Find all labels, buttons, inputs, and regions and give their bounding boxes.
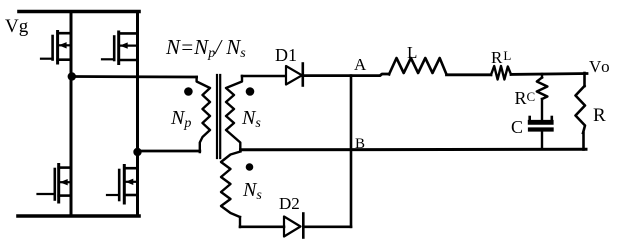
label RC (515, 88, 536, 109)
capacitor C (530, 117, 552, 148)
label D2 (279, 194, 300, 214)
wire node A vertical down to D2 output (350, 76, 353, 227)
node left-leg midpoint junction (68, 72, 76, 80)
wire secondary top to D1 anode (242, 75, 286, 78)
transformer primary winding Np (197, 77, 210, 152)
label node B (355, 136, 365, 153)
transistor Q2 upper-right MOSFET (102, 32, 138, 64)
label Vo (589, 57, 612, 77)
wire left-leg to primary top (72, 75, 197, 78)
wire left bridge leg (70, 12, 73, 217)
wire lower secondary to D2 anode (240, 226, 284, 229)
resistor RC (capacitor ESR) (537, 74, 548, 119)
wire D1 cathode to node A and inductor (303, 74, 389, 76)
diode D2 (284, 214, 303, 238)
label D1 (275, 45, 297, 66)
label RL (491, 48, 511, 68)
label node A (354, 55, 366, 75)
label R (593, 105, 606, 127)
transistor Q4 lower-right MOSFET (107, 166, 138, 204)
label L (407, 43, 417, 63)
label Np (171, 107, 191, 132)
wire L to RL (447, 73, 492, 76)
wire right bridge leg (136, 12, 139, 217)
transformer secondary winding Ns upper (226, 76, 242, 151)
inductor L (389, 58, 447, 74)
transistor Q1 upper-left MOSFET (41, 32, 71, 64)
wire top rail Vg+ (19, 10, 139, 14)
transformer primary dot (184, 87, 193, 96)
wire RL to Vo (511, 72, 587, 76)
resistor RL (491, 66, 511, 80)
diode D1 (286, 64, 303, 86)
transistor Q3 lower-left MOSFET (38, 165, 72, 203)
transformer secondary upper dot (246, 87, 255, 96)
wire right-leg to primary bottom (138, 150, 200, 153)
label Ns upper (242, 107, 261, 132)
node right-leg midpoint junction (133, 148, 141, 156)
wire D2 cathode to node A vertical (303, 226, 351, 229)
label Vg (5, 16, 28, 38)
wire node B rail (center tap to output return) (241, 148, 587, 152)
label Ns lower (243, 179, 262, 204)
label N=Np/Ns (166, 35, 246, 62)
transformer secondary winding Ns lower (221, 152, 241, 228)
label C (511, 117, 523, 138)
wire bottom rail Vg- (18, 214, 139, 218)
transformer secondary lower dot (246, 163, 254, 171)
transformer core (217, 75, 220, 158)
resistor R load (576, 73, 586, 150)
